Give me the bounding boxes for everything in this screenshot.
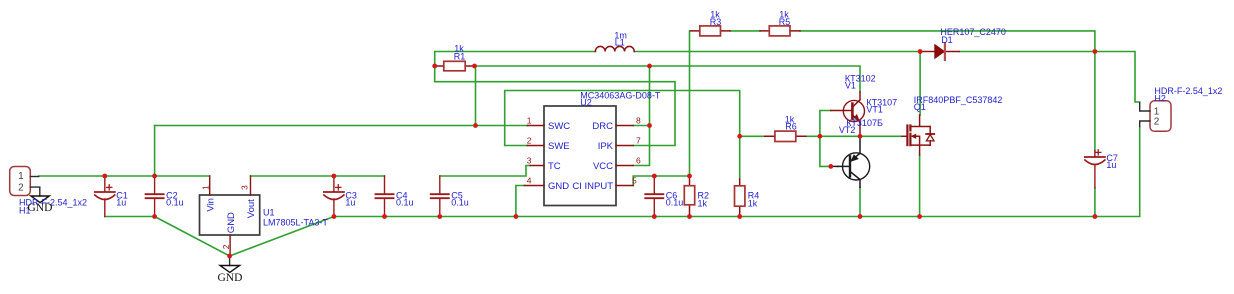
transistor VT2 (KT3107B black PNP) (831, 139, 870, 188)
U1 pin stubs (1 Vin, 3 Vout, 2 GND) (210, 176, 251, 256)
capacitor C7 (1085, 150, 1105, 188)
wire SWE to R4 top (505, 91, 740, 180)
svg-text:SWE: SWE (548, 141, 570, 152)
svg-text:1u: 1u (116, 198, 126, 208)
svg-text:Q1: Q1 (914, 102, 926, 112)
svg-text:IRF840PBF_C537842: IRF840PBF_C537842 (914, 95, 1003, 105)
svg-text:R1: R1 (454, 52, 466, 62)
wire Q1 drain up to D1 anode junction (919, 52, 921, 116)
capacitor C2 (146, 176, 164, 217)
U2 pin stubs left (1 SWC, 2 SWE, 3 TC, 4 GND) (524, 126, 544, 186)
junction R2 bottom (687, 214, 692, 219)
wire DRC stub to vertical (633, 125, 649, 127)
resistor R6 (765, 131, 806, 141)
wire ground rail (334, 127, 1140, 217)
junction C6 top (652, 174, 657, 179)
wire R5 right to C7 top (800, 31, 1095, 151)
svg-text:H2: H2 (1154, 94, 1166, 104)
svg-text:DRC: DRC (592, 121, 613, 132)
junction C4 bottom (382, 214, 387, 219)
svg-text:R5: R5 (779, 17, 791, 27)
svg-text:TC: TC (548, 161, 561, 172)
wire R1 right to V1 collector (475, 66, 861, 92)
capacitor C4 (376, 176, 394, 217)
svg-text:2: 2 (1154, 116, 1160, 127)
svg-text:1u: 1u (1106, 160, 1116, 170)
svg-text:0.1u: 0.1u (166, 198, 184, 208)
MOSFET Q1 (IRF840) (902, 115, 934, 155)
wire VT2 collector to rail (859, 187, 861, 216)
junction R4 bottom (737, 214, 742, 219)
junction C7 bottom (1093, 214, 1098, 219)
svg-text:2: 2 (527, 136, 532, 146)
svg-text:GND: GND (548, 181, 569, 192)
resistor R1 (435, 61, 475, 71)
junction R1 left (432, 64, 437, 69)
svg-text:CI INPUT: CI INPUT (572, 181, 613, 192)
wire D1 cathode to H2 corner (959, 52, 1140, 103)
junction C3 top (332, 174, 337, 179)
svg-text:Vin: Vin (206, 198, 217, 212)
svg-text:6: 6 (636, 156, 641, 166)
header H2 (1140, 101, 1171, 132)
svg-text:GND: GND (28, 202, 53, 214)
wire diagonal C3 to GND node (230, 217, 334, 257)
junction D1 cathode / C7 (1093, 49, 1098, 54)
svg-text:Vout: Vout (246, 199, 257, 218)
junction D1 anode (918, 49, 923, 54)
capacitor C3 (324, 176, 344, 217)
wire diagonal C2 to GND node (155, 217, 230, 257)
resistor R4 (735, 179, 745, 217)
svg-text:V1: V1 (845, 81, 856, 91)
ground symbol under U1 (220, 256, 240, 272)
junction VT2 emitter rail (858, 214, 863, 219)
wire Q1 source down to rail (919, 155, 921, 217)
svg-text:1: 1 (18, 171, 24, 182)
inductor L1 (595, 46, 634, 51)
junction Q1 source rail (917, 214, 922, 219)
svg-text:IPK: IPK (598, 141, 614, 152)
svg-text:U2: U2 (580, 97, 592, 107)
IC U1 LM7805 box (200, 195, 260, 235)
svg-text:VT1: VT1 (866, 105, 883, 115)
junction U2 pin4 rail (514, 214, 519, 219)
junction GND node U1 (227, 254, 232, 259)
svg-text:GND: GND (218, 272, 243, 284)
junction gate node (858, 134, 863, 139)
junction DRC stub (647, 123, 652, 128)
ground symbol at H1 (31, 196, 49, 203)
wire DRC/VCC vertical (633, 66, 649, 166)
wire U2 pin4 to ground rail (516, 186, 524, 217)
svg-text:8: 8 (636, 116, 641, 126)
svg-text:MC34063AG-D08-T: MC34063AG-D08-T (580, 90, 661, 100)
header H1 (10, 167, 40, 197)
svg-text:VT2: VT2 (839, 125, 856, 135)
wire R4 top junction to R6 left (740, 135, 765, 137)
wire C1-C2 bottom (105, 216, 155, 218)
wire R1 right junction down to SWC line (475, 66, 477, 126)
junction R6 right (818, 134, 823, 139)
junction C2 top (152, 174, 157, 179)
junction R1 right (472, 64, 477, 69)
svg-text:5: 5 (632, 176, 637, 186)
wire gate line dot to Q1 (860, 135, 902, 137)
wire L1 to D1 anode junction (634, 51, 920, 53)
svg-text:LM7805L-TA3-T: LM7805L-TA3-T (263, 218, 328, 228)
junction C1 top (102, 174, 107, 179)
wire C7 bottom to rail (1094, 188, 1096, 217)
wire R1 left junction down to IPK (435, 66, 675, 146)
U2 pin stubs right (8 DRC, 7 IPK, 6 VCC, 5 CI INPUT) (616, 126, 633, 186)
wire R3-R5 middle (730, 30, 760, 32)
resistor R2 (684, 176, 694, 217)
wire R3 left vertical to R2 top (689, 31, 691, 176)
wire junction up to V1 base (820, 111, 831, 137)
resistor R3 (691, 26, 731, 36)
svg-text:U1: U1 (263, 208, 275, 218)
wire Vout rail U1 pin3 to C4 (251, 175, 385, 177)
svg-text:VCC: VCC (593, 161, 613, 172)
svg-text:1: 1 (527, 116, 532, 126)
svg-text:R6: R6 (785, 122, 797, 132)
junction C5 bottom (437, 214, 442, 219)
wire junction down to VT2 base (820, 136, 831, 166)
svg-text:0.1u: 0.1u (666, 198, 684, 208)
transistor V1 (KT3102 red NPN) (831, 92, 865, 136)
junction C2 bottom (152, 214, 157, 219)
svg-text:SWC: SWC (548, 121, 570, 132)
svg-text:3: 3 (527, 156, 532, 166)
svg-text:1: 1 (200, 185, 210, 190)
capacitor C6 (645, 176, 663, 217)
junction SWC/R1 (473, 123, 478, 128)
wire SWC line to U2 pin1 (155, 125, 528, 127)
svg-text:7: 7 (636, 136, 641, 146)
junction R6 left / R4 top (737, 134, 742, 139)
junction VT2 base (828, 164, 833, 169)
wire U2 pin5 to C6/R2 (633, 176, 689, 186)
resistor R5 (760, 26, 800, 36)
wire R1 left junction up to L1 line (435, 52, 596, 67)
wire R6 right to junction (806, 135, 860, 137)
svg-text:1k: 1k (748, 199, 758, 209)
capacitor C1 (95, 178, 115, 217)
wire TC to C5 (440, 166, 530, 177)
IC U2 MC34063 box (544, 106, 616, 206)
junction R2 top (687, 174, 692, 179)
svg-text:R3: R3 (710, 17, 722, 27)
svg-text:2: 2 (18, 182, 24, 193)
junction C6 bottom (652, 214, 657, 219)
capacitor C5 (431, 176, 449, 217)
junction C3 bottom (332, 214, 337, 219)
wire riser C2 top to SWC line (154, 126, 156, 177)
svg-text:1u: 1u (345, 198, 355, 208)
svg-text:GND: GND (226, 212, 237, 233)
svg-text:2: 2 (221, 244, 231, 249)
svg-text:3: 3 (240, 185, 250, 190)
svg-text:1k: 1k (698, 199, 708, 209)
diode D1 (920, 43, 959, 60)
svg-text:D1: D1 (941, 35, 953, 45)
svg-text:4: 4 (527, 176, 532, 186)
svg-text:0.1u: 0.1u (451, 198, 469, 208)
wire input rail H1 to U1 pin1 (39, 175, 210, 177)
svg-text:0.1u: 0.1u (396, 198, 414, 208)
svg-text:L1: L1 (615, 38, 625, 48)
junction y66/DRC (647, 64, 652, 69)
